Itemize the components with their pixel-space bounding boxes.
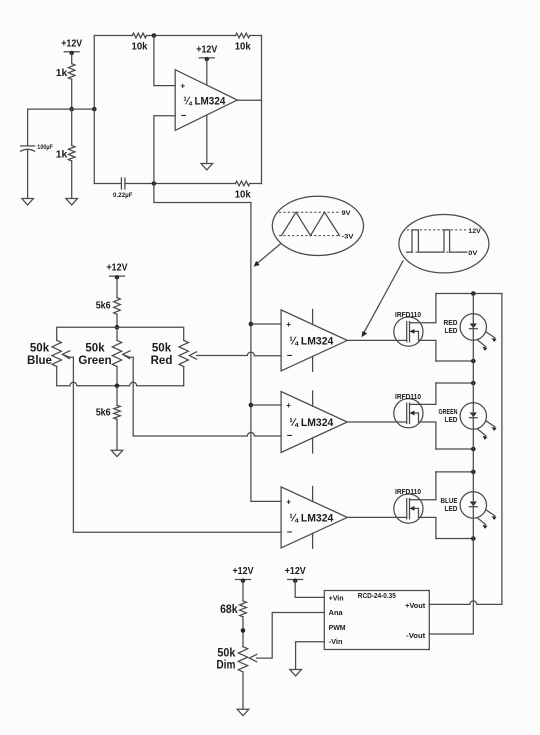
wire LED1 bottom wire bbox=[436, 360, 473, 362]
wire bbox=[71, 161, 73, 199]
op-amp U1A oscillator 1/4 LM324 bbox=[175, 70, 237, 131]
wire bbox=[116, 419, 118, 450]
svg-text:+12V: +12V bbox=[107, 262, 128, 274]
svg-text:IRFD110: IRFD110 bbox=[395, 312, 421, 319]
node rail to comparator 2 +in bbox=[249, 403, 254, 408]
potentiometer 50k Blue bbox=[27, 340, 73, 367]
svg-text:¼ LM324: ¼ LM324 bbox=[289, 336, 334, 348]
power stubs comparator 3 bbox=[312, 486, 314, 548]
svg-text:−: − bbox=[287, 527, 293, 538]
resistor 1k (lower divider) bbox=[56, 145, 75, 160]
wire comparator 3 output to gate bbox=[347, 516, 406, 518]
wire Q3 source stub bbox=[419, 517, 436, 538]
node 68k / dim pot junction bbox=[241, 628, 246, 633]
wire green wiper to comparator 2 bbox=[133, 357, 281, 436]
wire +12V to +Vin pin bbox=[295, 581, 324, 598]
svg-text:5k6: 5k6 bbox=[96, 300, 111, 312]
svg-text:100µF: 100µF bbox=[37, 144, 53, 151]
op-amp comparator U1 ch3 1/4 LM324 bbox=[281, 392, 347, 453]
svg-text:+: + bbox=[286, 401, 291, 410]
svg-text:10k: 10k bbox=[132, 40, 148, 52]
resistor 5k6 (lower) bbox=[96, 405, 121, 419]
svg-text:Dim: Dim bbox=[216, 660, 235, 672]
svg-text:50k: 50k bbox=[152, 343, 172, 355]
callout arrow to triangle-wave rail bbox=[254, 244, 281, 267]
node LED1 anode bbox=[471, 291, 476, 296]
wire bbox=[56, 367, 58, 386]
wire pot top rail bbox=[57, 327, 184, 340]
node LED2 cathode bbox=[471, 447, 476, 452]
svg-text:-Vout: -Vout bbox=[406, 633, 426, 640]
wire op-amp output bbox=[237, 99, 261, 101]
svg-text:¼ LM324: ¼ LM324 bbox=[183, 95, 226, 107]
op-amp comparator U1 ch2 1/4 LM324 bbox=[281, 310, 347, 371]
svg-text:+12V: +12V bbox=[233, 565, 254, 577]
op-amp comparator U1 ch4 1/4 LM324 bbox=[281, 487, 347, 548]
wire inverting input bbox=[154, 116, 175, 184]
ground (below 1k) bbox=[66, 199, 78, 205]
wire red wiper to comparator 1 bbox=[197, 352, 282, 356]
wire bbox=[242, 617, 244, 647]
svg-text:50k: 50k bbox=[85, 343, 105, 355]
wire pot bottom rail with hops bbox=[57, 382, 184, 385]
wire Q2 drain stub bbox=[410, 383, 436, 404]
wire Q3 drain stub bbox=[410, 472, 436, 500]
wire bbox=[116, 327, 118, 340]
svg-text:+Vin: +Vin bbox=[329, 596, 344, 603]
wire left feedback rail bbox=[93, 36, 95, 184]
power +12V supply (68k) bbox=[233, 565, 254, 583]
svg-text:GREEN: GREEN bbox=[439, 409, 458, 416]
wire op-amp V- stem bbox=[206, 115, 208, 164]
node divider midpoint bbox=[69, 107, 74, 112]
svg-text:−: − bbox=[287, 431, 293, 442]
ground (pot ladder) bbox=[111, 450, 123, 456]
transistor IRFD110 Q1 bbox=[394, 317, 423, 346]
transistor IRFD110 Q2 bbox=[394, 399, 423, 428]
wire bbox=[28, 108, 95, 110]
svg-text:5k6: 5k6 bbox=[96, 407, 111, 419]
wire bbox=[71, 79, 73, 109]
wire right rail of oscillator bbox=[261, 36, 263, 184]
wire LED2 top wire bbox=[436, 382, 473, 384]
wire bbox=[116, 367, 118, 386]
LED RED LED bbox=[444, 314, 497, 351]
node LED2 anode bbox=[471, 381, 476, 386]
svg-text:LED: LED bbox=[445, 328, 458, 335]
resistor 68k bbox=[220, 601, 246, 617]
wire bbox=[27, 150, 29, 199]
node LED3 anode bbox=[471, 470, 476, 475]
wire bbox=[147, 35, 236, 37]
svg-text:10k: 10k bbox=[235, 40, 251, 52]
svg-text:12V: 12V bbox=[468, 228, 481, 235]
node pot ladder top bbox=[115, 325, 120, 330]
wire bbox=[94, 35, 132, 37]
power +12V supply (oscillator divider) bbox=[61, 37, 82, 55]
wire bbox=[183, 367, 185, 386]
wire LED series column to -Vout bbox=[429, 294, 473, 635]
wire comparator 2 output to gate bbox=[347, 421, 406, 423]
wire bbox=[242, 672, 244, 709]
wire bbox=[251, 404, 281, 406]
wire bbox=[242, 581, 244, 601]
wire bbox=[116, 386, 118, 405]
wire bbox=[116, 314, 118, 327]
node LED3 cathode bbox=[471, 536, 476, 541]
svg-text:Red: Red bbox=[151, 355, 173, 367]
svg-text:¼ LM324: ¼ LM324 bbox=[289, 513, 334, 525]
potentiometer 50k Red bbox=[151, 340, 197, 367]
LED driver module RCD-24-0.35 bbox=[324, 591, 429, 650]
wire dim wiper to Ana pin bbox=[257, 613, 325, 659]
svg-text:Green: Green bbox=[78, 355, 111, 367]
LED GREEN LED bbox=[439, 403, 497, 440]
node at left rail bbox=[92, 107, 97, 112]
svg-text:+: + bbox=[180, 82, 185, 91]
svg-text:1k: 1k bbox=[56, 67, 68, 79]
wire triangle-wave rail bbox=[251, 203, 281, 502]
wire bbox=[250, 183, 262, 185]
wire non-inverting input bbox=[154, 36, 175, 86]
svg-text:0V: 0V bbox=[468, 250, 478, 257]
wire LED2 bottom wire bbox=[436, 448, 473, 450]
wire comparator 1 output to gate bbox=[347, 339, 406, 341]
wire bbox=[250, 35, 262, 37]
svg-text:Ana: Ana bbox=[329, 610, 343, 617]
svg-text:+Vout: +Vout bbox=[405, 603, 426, 610]
resistor 10k (hysteresis right) bbox=[235, 33, 251, 52]
callout square waveform ellipse bbox=[399, 215, 489, 273]
svg-text:1k: 1k bbox=[56, 148, 68, 160]
ground (-Vin) bbox=[290, 670, 302, 676]
svg-text:−: − bbox=[287, 350, 293, 361]
svg-text:+12V: +12V bbox=[285, 565, 306, 577]
capacitor 100uF bbox=[21, 144, 53, 151]
wire blue wiper to comparator 3 bbox=[73, 357, 281, 532]
potentiometer 50k Green bbox=[78, 340, 133, 367]
capacitor 0.22uF bbox=[113, 178, 133, 199]
svg-text:LED: LED bbox=[445, 417, 458, 424]
node top wire junction bbox=[152, 33, 157, 38]
wire LED1 top wire bbox=[436, 293, 502, 295]
wire bbox=[251, 323, 281, 325]
wire bbox=[71, 109, 73, 145]
resistor 5k6 (upper) bbox=[96, 298, 121, 315]
wire -Vin to ground bbox=[296, 642, 325, 670]
svg-text:+12V: +12V bbox=[196, 44, 217, 56]
transistor IRFD110 Q3 bbox=[394, 494, 423, 523]
resistor 10k (hysteresis left) bbox=[132, 33, 148, 52]
node LED1 cathode bbox=[471, 359, 476, 364]
wire Q2 source stub bbox=[419, 422, 436, 449]
wire +Vout to anode rail (hop over column) bbox=[429, 294, 502, 605]
callout triangle waveform ellipse bbox=[272, 196, 363, 255]
svg-text:50k: 50k bbox=[30, 343, 50, 355]
power stubs comparator 2 bbox=[312, 391, 314, 453]
svg-text:¼ LM324: ¼ LM324 bbox=[289, 417, 334, 429]
svg-text:Blue: Blue bbox=[27, 355, 52, 367]
wire Q1 drain stub bbox=[410, 294, 436, 323]
callout arrow to PWM gate wire bbox=[362, 261, 404, 337]
wire Q1 source stub bbox=[419, 340, 436, 361]
node integrator node bbox=[152, 181, 157, 186]
ground (below 100uF) bbox=[22, 199, 34, 205]
wire bbox=[125, 183, 236, 185]
wire bbox=[71, 53, 73, 64]
svg-text:10k: 10k bbox=[235, 188, 251, 200]
svg-text:-Vin: -Vin bbox=[329, 639, 343, 646]
wire bbox=[27, 109, 29, 146]
power stubs comparator 1 bbox=[312, 309, 314, 371]
wire triangle-wave tap bbox=[154, 184, 251, 203]
svg-text:9V: 9V bbox=[342, 210, 352, 217]
power +12V supply (pot ladder) bbox=[107, 262, 128, 280]
ground (op-amp V-) bbox=[201, 164, 213, 170]
LED BLUE LED bbox=[441, 492, 497, 529]
wire op-amp V+ stem bbox=[206, 59, 208, 85]
wire bbox=[116, 277, 118, 297]
potentiometer 50k Dim bbox=[216, 647, 256, 672]
power +12V supply (op-amp V+) bbox=[196, 44, 217, 62]
svg-text:+: + bbox=[286, 320, 291, 329]
svg-text:+: + bbox=[286, 498, 291, 507]
svg-text:0.22µF: 0.22µF bbox=[113, 192, 133, 199]
resistor 1k (upper divider) bbox=[56, 64, 75, 80]
svg-text:BLUE: BLUE bbox=[441, 498, 458, 505]
svg-text:-3V: -3V bbox=[342, 234, 355, 241]
svg-text:68k: 68k bbox=[220, 604, 238, 616]
wire bbox=[94, 183, 121, 185]
svg-text:PWM: PWM bbox=[329, 625, 346, 632]
svg-text:IRFD110: IRFD110 bbox=[395, 394, 421, 401]
node pot ladder bottom bbox=[115, 384, 120, 389]
wire LED3 bottom wire bbox=[436, 538, 473, 540]
svg-text:RED: RED bbox=[444, 320, 458, 327]
ground (dim pot) bbox=[237, 709, 249, 715]
svg-text:−: − bbox=[181, 110, 187, 121]
power +12V supply (+Vin) bbox=[285, 565, 306, 583]
svg-text:50k: 50k bbox=[217, 647, 236, 659]
node rail to comparator 1 +in bbox=[249, 322, 254, 327]
wire LED3 top wire bbox=[436, 471, 473, 473]
resistor 10k (integrator) bbox=[235, 181, 251, 200]
svg-text:RCD-24-0.35: RCD-24-0.35 bbox=[358, 593, 396, 600]
svg-text:IRFD110: IRFD110 bbox=[395, 489, 421, 496]
svg-text:+12V: +12V bbox=[61, 37, 82, 49]
svg-text:LED: LED bbox=[445, 506, 458, 513]
